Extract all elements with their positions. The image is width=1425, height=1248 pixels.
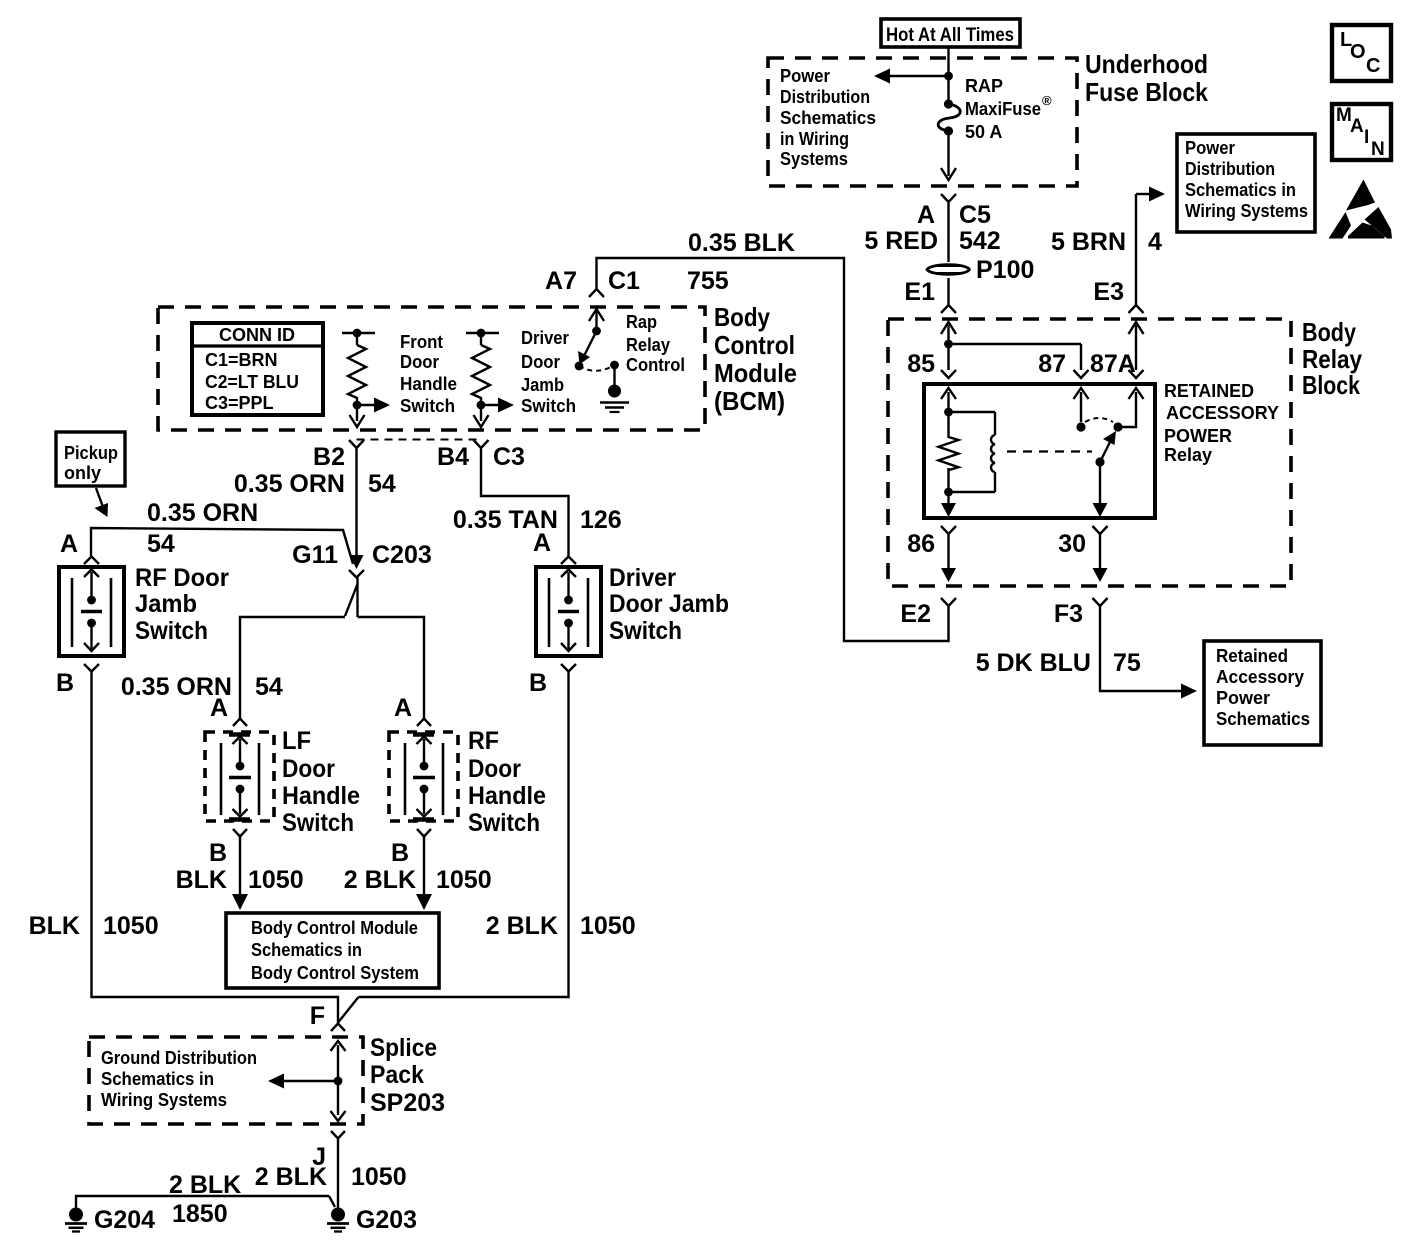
connector C203 / G11 (in-line) [292, 541, 432, 578]
svg-text:C3: C3 [493, 443, 525, 471]
svg-text:B2: B2 [313, 443, 345, 471]
resistor Front Door Handle Switch (in BCM) [342, 329, 457, 427]
wire below C203 splitting to LF and RF door handle switches [121, 578, 424, 720]
svg-text:O: O [1350, 41, 1366, 63]
switch Rap Relay Control (in BCM) [575, 309, 685, 375]
svg-text:1050: 1050 [580, 912, 636, 940]
connector line between B2 and B4 below BCM [357, 439, 482, 441]
pin B of LF Door Handle Switch + wire BLK 1050 to BCM schematics box [176, 829, 304, 910]
svg-text:Switch: Switch [468, 809, 540, 837]
svg-text:RETAINED: RETAINED [1164, 380, 1254, 401]
svg-text:1050: 1050 [103, 912, 159, 940]
pin A of RF Door Handle Switch [394, 694, 431, 726]
wire 0.35 TAN 126 from B4/C3 to Driver Door Jamb Switch A [453, 448, 622, 557]
svg-text:B: B [529, 669, 547, 697]
svg-text:B: B [56, 669, 74, 697]
pin A of RF Door Jamb Switch [84, 557, 99, 565]
pin A of Driver Door Jamb Switch [561, 557, 576, 565]
svg-text:C203: C203 [372, 541, 432, 569]
switch RF Door Handle Switch [389, 727, 546, 837]
svg-text:G11: G11 [292, 541, 338, 569]
svg-text:E3: E3 [1093, 278, 1124, 306]
svg-text:755: 755 [687, 267, 729, 295]
ground G203 [327, 1206, 417, 1234]
pin A of LF Door Handle Switch [210, 694, 247, 726]
svg-text:A: A [60, 530, 78, 558]
svg-text:Relay: Relay [626, 335, 670, 355]
svg-text:only: only [64, 463, 101, 483]
svg-text:RAP: RAP [965, 76, 1003, 96]
svg-text:1050: 1050 [351, 1163, 407, 1191]
svg-text:1850: 1850 [172, 1200, 228, 1228]
svg-text:MaxiFuse: MaxiFuse [965, 99, 1041, 119]
svg-text:F3: F3 [1054, 600, 1083, 628]
svg-text:Fuse Block: Fuse Block [1085, 77, 1208, 107]
relay coil branch (pin 85 to 86) [939, 388, 996, 517]
svg-text:0.35 BLK: 0.35 BLK [688, 229, 795, 257]
wire fuse to fuse block edge with down arrow [941, 131, 956, 180]
pin B2 [313, 440, 364, 471]
svg-text:Block: Block [1302, 370, 1360, 400]
svg-text:0.35 ORN: 0.35 ORN [234, 470, 345, 498]
svg-text:Systems: Systems [780, 149, 848, 169]
pin B4 / C3 [437, 440, 525, 471]
svg-text:Power: Power [1185, 138, 1235, 158]
svg-text:Jamb: Jamb [135, 590, 197, 618]
pin E2 chevron [900, 598, 956, 628]
svg-text:F: F [310, 1002, 325, 1030]
svg-text:Wiring Systems: Wiring Systems [101, 1090, 227, 1110]
svg-text:B: B [209, 839, 227, 867]
svg-text:87: 87 [1038, 350, 1066, 378]
svg-text:0.35 ORN: 0.35 ORN [147, 499, 258, 527]
fuse RAP MaxiFuse 50 A [938, 76, 1052, 142]
svg-text:Door Jamb: Door Jamb [609, 590, 729, 618]
svg-text:54: 54 [368, 470, 396, 498]
svg-text:75: 75 [1113, 649, 1141, 677]
svg-text:RF Door: RF Door [135, 564, 229, 592]
node Hot At All Times label box [881, 19, 1020, 47]
svg-text:54: 54 [147, 530, 175, 558]
pins 86 and 30 below relay [907, 526, 956, 582]
svg-text:B4: B4 [437, 443, 469, 471]
Splice Pack SP203 dashed box [89, 1034, 445, 1124]
ESD warning symbol [1329, 180, 1393, 239]
svg-text:2 BLK: 2 BLK [344, 866, 416, 894]
svg-text:Distribution: Distribution [780, 87, 870, 107]
CONN ID table [192, 323, 323, 415]
wire E1 into relay block, junction, to 85 and 87 [907, 322, 1136, 378]
svg-text:Pack: Pack [370, 1061, 424, 1089]
svg-text:P100: P100 [976, 256, 1034, 284]
svg-text:Hot At All Times: Hot At All Times [886, 24, 1014, 46]
svg-text:Door: Door [400, 352, 439, 372]
svg-text:A: A [533, 529, 551, 557]
Body Control Module Schematics reference box [226, 913, 439, 988]
svg-text:BLK: BLK [29, 912, 80, 940]
svg-text:Power: Power [1216, 688, 1270, 708]
svg-text:2 BLK: 2 BLK [169, 1171, 241, 1199]
svg-text:30: 30 [1058, 530, 1086, 558]
svg-text:87A: 87A [1090, 350, 1136, 378]
svg-text:4: 4 [1148, 228, 1162, 256]
svg-text:2 BLK: 2 BLK [486, 912, 558, 940]
svg-text:BLK: BLK [176, 866, 227, 894]
svg-text:5 DK BLU: 5 DK BLU [976, 649, 1091, 677]
svg-text:A7: A7 [545, 267, 577, 295]
svg-text:54: 54 [255, 673, 283, 701]
svg-text:1050: 1050 [436, 866, 492, 894]
pin F of splice pack [310, 1002, 345, 1031]
svg-text:Schematics in: Schematics in [1185, 180, 1296, 200]
svg-text:Switch: Switch [135, 617, 208, 645]
svg-text:Front: Front [400, 332, 443, 352]
svg-text:SP203: SP203 [370, 1089, 445, 1117]
svg-text:Control: Control [626, 355, 685, 375]
svg-text:ACCESSORY: ACCESSORY [1166, 402, 1280, 423]
splice SP203 internal wire with arrows [268, 1041, 346, 1121]
svg-text:RF: RF [468, 727, 499, 755]
svg-text:Body: Body [714, 302, 770, 332]
svg-text:in Wiring: in Wiring [780, 129, 849, 149]
Power Distribution Schematics in Wiring Systems reference box (top right) [1177, 134, 1315, 232]
svg-text:Ground Distribution: Ground Distribution [101, 1048, 257, 1068]
pin A of C5 (connector below fuse block) [917, 194, 991, 229]
relay switch blade and pin 30 [1093, 431, 1117, 517]
svg-text:Schematics in: Schematics in [101, 1069, 214, 1089]
svg-text:Door: Door [521, 352, 560, 372]
svg-text:5 RED: 5 RED [864, 227, 938, 255]
svg-text:(BCM): (BCM) [714, 386, 785, 416]
svg-text:Switch: Switch [609, 617, 682, 645]
pin 85 chevron [941, 370, 956, 378]
ground (Rap relay control, in BCM) [600, 365, 629, 412]
ground G204 [65, 1206, 155, 1234]
svg-text:Retained: Retained [1216, 646, 1288, 666]
relay control dashed link [1007, 450, 1092, 452]
svg-text:Switch: Switch [400, 396, 455, 416]
svg-text:C1: C1 [608, 267, 640, 295]
svg-text:Handle: Handle [468, 782, 546, 810]
svg-text:A: A [394, 694, 412, 722]
resistor Driver Door Jamb Switch (in BCM) [466, 328, 576, 427]
svg-text:Door: Door [468, 755, 521, 783]
wire B2 to C203 (0.35 ORN 54) [234, 448, 396, 569]
pin A7 connector chevron [589, 289, 604, 297]
svg-text:Power: Power [780, 66, 830, 86]
svg-text:Distribution: Distribution [1185, 159, 1275, 179]
pin B of Driver Door Jamb Switch + long wire 2 BLK 1050 down [339, 664, 636, 1022]
svg-text:Door: Door [282, 755, 335, 783]
svg-text:Handle: Handle [400, 374, 457, 394]
svg-text:N: N [1371, 139, 1385, 160]
svg-text:®: ® [1042, 93, 1052, 108]
pin B of RF Door Jamb Switch + long wire BLK 1050 down [29, 664, 338, 1024]
svg-text:Jamb: Jamb [521, 375, 564, 395]
pin J of splice pack + wire 2 BLK 1050 to G203 [255, 1131, 407, 1208]
pin 87A chevron [1129, 370, 1144, 378]
node junction to power distribution [780, 66, 953, 169]
svg-text:E1: E1 [904, 278, 935, 306]
svg-text:5 BRN: 5 BRN [1051, 228, 1126, 256]
svg-text:Body: Body [1302, 317, 1356, 347]
Pickup only note box with arrow [56, 432, 125, 517]
svg-text:Relay: Relay [1164, 444, 1213, 465]
svg-text:Wiring Systems: Wiring Systems [1185, 201, 1308, 221]
svg-text:2 BLK: 2 BLK [255, 1163, 327, 1191]
svg-text:542: 542 [959, 227, 1001, 255]
svg-text:85: 85 [907, 350, 935, 378]
wire P100 to E1 [904, 278, 948, 306]
svg-text:C3=PPL: C3=PPL [205, 393, 274, 413]
svg-text:Accessory: Accessory [1216, 667, 1304, 687]
wire 5 RED 542 [864, 202, 1000, 262]
svg-text:E2: E2 [900, 600, 931, 628]
svg-text:A: A [1350, 116, 1364, 137]
relay RETAINED ACCESSORY POWER Relay box [924, 380, 1280, 518]
svg-text:Splice: Splice [370, 1034, 437, 1062]
svg-text:C1=BRN: C1=BRN [205, 350, 278, 370]
svg-text:126: 126 [580, 506, 622, 534]
svg-text:Rap: Rap [626, 312, 657, 332]
svg-text:Body Control System: Body Control System [251, 963, 419, 983]
svg-text:Schematics: Schematics [1216, 709, 1310, 729]
pin B of RF Door Handle Switch + wire 2 BLK 1050 to BCM schematics box [344, 829, 492, 910]
svg-text:50 A: 50 A [965, 122, 1002, 142]
relay contact 87 [1074, 388, 1089, 432]
svg-text:LF: LF [282, 727, 311, 755]
relay contact 87A and wire [1085, 388, 1144, 432]
svg-text:A: A [917, 201, 935, 229]
svg-text:Pickup: Pickup [64, 443, 118, 463]
svg-text:CONN ID: CONN ID [219, 325, 295, 345]
LOC box [1332, 25, 1391, 81]
svg-text:Module: Module [714, 358, 797, 388]
svg-text:G204: G204 [94, 1206, 155, 1234]
svg-text:Control: Control [714, 330, 795, 360]
wire 2 BLK 1850 branch to G204 [76, 1171, 335, 1228]
svg-text:POWER: POWER [1164, 425, 1232, 446]
wire from Hot At All Times down into fuse block [947, 47, 949, 104]
svg-text:Body Control Module: Body Control Module [251, 918, 418, 938]
svg-text:Switch: Switch [282, 809, 354, 837]
svg-text:Driver: Driver [609, 564, 676, 592]
svg-text:C: C [1366, 55, 1380, 77]
switch LF Door Handle Switch [205, 727, 360, 837]
svg-text:B: B [391, 839, 409, 867]
wire 5 BRN 4 with arrow to Power Distribution box [1051, 187, 1165, 307]
wire E3 to 87A [1129, 322, 1144, 370]
svg-text:Schematics in: Schematics in [251, 940, 362, 960]
pin E3 connector chevron [1129, 305, 1144, 313]
pin 87 chevron [1074, 370, 1089, 378]
svg-text:Switch: Switch [521, 396, 576, 416]
svg-text:1050: 1050 [248, 866, 304, 894]
svg-text:Driver: Driver [521, 328, 569, 348]
svg-text:C5: C5 [959, 201, 991, 229]
svg-text:G203: G203 [356, 1206, 417, 1234]
switch Driver Door Jamb Switch [536, 564, 729, 656]
svg-text:Underhood: Underhood [1085, 49, 1208, 79]
Retained Accessory Power Schematics reference box [1204, 641, 1321, 745]
svg-text:Handle: Handle [282, 782, 360, 810]
Underhood Fuse Block dashed box [768, 49, 1208, 186]
svg-text:86: 86 [907, 530, 935, 558]
pin F3 + wire 5 DK BLU 75 to Retained Accessory Power Schematics [976, 598, 1197, 699]
svg-text:Schematics: Schematics [780, 108, 876, 128]
grommet P100 [927, 256, 1034, 284]
switch RF Door Jamb Switch [59, 564, 229, 656]
MAIN box [1332, 104, 1391, 160]
svg-text:I: I [1364, 127, 1369, 148]
svg-text:C2=LT BLU: C2=LT BLU [205, 372, 299, 392]
pin E1 connector chevron [941, 305, 956, 313]
svg-text:A: A [210, 694, 228, 722]
wire branch to RF Door Jamb Switch A (0.35 ORN 54, Pickup only) [60, 499, 353, 564]
